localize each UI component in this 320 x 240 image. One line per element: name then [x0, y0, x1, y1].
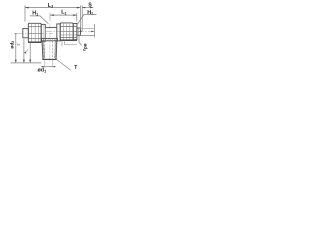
od1 outside arrows	[42, 66, 45, 67]
left neck	[41, 24, 45, 41]
od1 dim line	[41, 66, 56, 68]
svg-text:ød1: ød1	[38, 68, 47, 74]
branch shoulder	[42, 38, 58, 40]
right stub	[77, 28, 81, 35]
L1 left extension solid segment	[49, 13, 51, 21]
od1 ext lines	[44, 60, 46, 68]
L3 arrows	[25, 7, 29, 9]
small arrow mark at left dim line 2	[24, 51, 26, 53]
tube arrows on centerline	[79, 31, 82, 33]
svg-text:T: T	[74, 65, 77, 71]
H1 leader	[30, 16, 49, 24]
svg-text:ød2: ød2	[82, 44, 88, 52]
big diagonal leader	[57, 60, 71, 71]
right neck	[57, 24, 60, 41]
branch thread outer edges	[41, 41, 44, 60]
S arrows	[82, 7, 85, 9]
branch centerline vertical / L1 left extension	[49, 13, 51, 63]
branch bore dashed	[44, 41, 46, 60]
svg-text:S: S	[88, 3, 92, 9]
branch bottom face	[42, 58, 57, 60]
left dim line 3	[29, 42, 31, 62]
L1 dim	[50, 14, 77, 16]
H2 leader	[76, 14, 96, 25]
L1 arrows	[50, 14, 54, 16]
L3 dim	[25, 7, 80, 9]
centerline right arm axis	[46, 30, 94, 32]
left dim line 2	[23, 39, 25, 62]
left nut	[28, 23, 41, 42]
svg-text:ød2: ød2	[9, 41, 15, 49]
right nut	[60, 23, 73, 40]
right cap	[73, 24, 77, 40]
bottom baseline	[11, 62, 42, 64]
S dim	[82, 7, 93, 9]
centerline left arm axis	[18, 32, 54, 34]
branch shoulder hatch	[43, 39, 57, 41]
left stub (large tube cap)	[23, 29, 29, 38]
tube (right, phantom)	[80, 27, 95, 29]
center body	[45, 26, 57, 28]
left dim down arrows	[15, 60, 17, 63]
left dim line 1 with cap	[15, 33, 17, 62]
line under right nut	[64, 43, 77, 45]
right od leader	[79, 35, 82, 45]
thread hatch left flank	[42, 40, 57, 59]
